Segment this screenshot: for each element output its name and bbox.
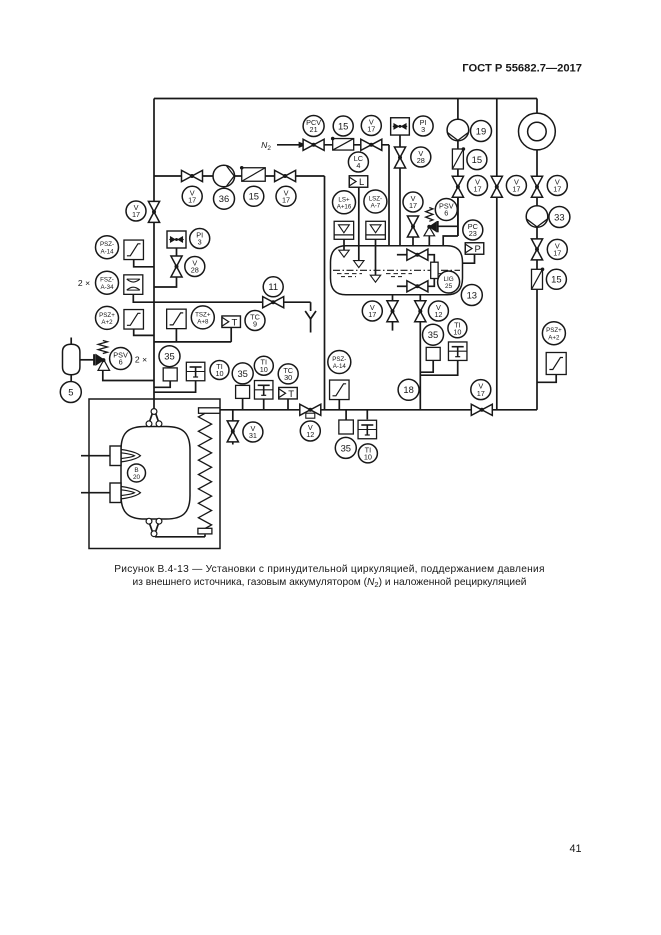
instrument bubble LSZ- A-7 [364, 190, 387, 213]
LS probe [343, 239, 345, 250]
svg-text:A-7: A-7 [371, 203, 381, 210]
selector box T TC9 [222, 316, 241, 328]
instrument bubble 15 feed [244, 186, 264, 206]
N2 line drop to drum [388, 145, 390, 247]
transducer box PSZ+A+2 right [546, 353, 566, 375]
svg-text:L: L [359, 177, 364, 188]
right recirculation pipe x537 [536, 99, 538, 114]
valve V17 bottom header right [471, 404, 492, 415]
svg-text:6: 6 [119, 358, 123, 367]
instrument bubble 35 blowoff [423, 324, 444, 345]
svg-text:ГОСТ Р 55682.7—2017: ГОСТ Р 55682.7—2017 [462, 63, 582, 75]
svg-text:30: 30 [284, 373, 292, 382]
instrument bubble PI 3 left [190, 229, 210, 249]
valve V28 vent branch [394, 147, 405, 168]
instrument bubble TI 10 left [210, 361, 229, 380]
PSZ-A-14 right stub [338, 399, 340, 409]
svg-text:15: 15 [249, 191, 259, 202]
PSV outlet to vent line [438, 225, 458, 227]
instrument bubble PSV 6 drum [435, 199, 457, 221]
instrument bubble PCV 21 [303, 116, 324, 137]
instrument bubble PSV 6 left [110, 348, 132, 370]
instrument bubble V 17 vent [468, 176, 488, 196]
instrument bubble LC 4 [348, 152, 368, 172]
svg-text:A+2: A+2 [548, 334, 560, 341]
junction box left [163, 368, 177, 381]
selector box T TC30 [279, 387, 298, 399]
instrument bubble FSZ- A-34 [96, 271, 119, 294]
PSV6 left discharge [103, 370, 154, 380]
svg-text:PSZ+: PSZ+ [546, 327, 562, 334]
svg-text:10: 10 [260, 365, 268, 374]
second riser pipe x497 [496, 99, 498, 177]
PC23 sensing line [461, 254, 475, 263]
instrument bubble 19 [471, 121, 492, 142]
svg-text:17: 17 [188, 196, 196, 205]
thermowell box blowoff [448, 342, 467, 361]
valve V17 drum drain [387, 301, 398, 322]
svg-text:17: 17 [132, 210, 140, 219]
instrument bubble 11 [263, 277, 283, 297]
flow element PI3 branch [167, 231, 186, 248]
valve V17 main line [148, 201, 159, 222]
selector box L [349, 176, 368, 188]
transducer box PSZ-A-14 [124, 240, 144, 259]
svg-text:15: 15 [472, 154, 482, 165]
thermowell box left [186, 362, 205, 381]
svg-text:10: 10 [453, 328, 461, 337]
instrument bubble V 17 recirc lower [547, 239, 567, 259]
pump 33 [526, 206, 548, 228]
svg-text:17: 17 [409, 201, 417, 210]
svg-text:3: 3 [198, 238, 202, 247]
junction box mid [236, 385, 250, 398]
svg-text:21: 21 [310, 125, 318, 134]
svg-text:A-14: A-14 [333, 363, 347, 370]
svg-text:LS+: LS+ [338, 196, 350, 203]
svg-text:12: 12 [434, 310, 442, 319]
burner upper [110, 446, 121, 466]
instrument bubble PSZ+ A+2 right [542, 322, 565, 345]
selector box P [465, 243, 484, 255]
svg-text:17: 17 [282, 196, 290, 205]
svg-text:35: 35 [341, 442, 351, 453]
steam drum vessel [331, 246, 463, 295]
svg-text:Рисунок В.4-13 — Установки с п: Рисунок В.4-13 — Установки с принудитель… [114, 564, 545, 575]
svg-text:3: 3 [421, 125, 425, 134]
valve V17 on N2 line [361, 139, 382, 150]
svg-text:15: 15 [338, 120, 348, 131]
svg-text:17: 17 [473, 185, 481, 194]
svg-text:LSZ-: LSZ- [369, 196, 382, 203]
valve 11 blowdown [263, 297, 284, 308]
valve V12 bottom header [300, 404, 321, 415]
valve V28 left [171, 256, 182, 277]
valve V31 [227, 421, 238, 442]
boiler vessel [121, 427, 190, 520]
pump 19 ejector [447, 119, 469, 141]
svg-text:17: 17 [477, 389, 485, 398]
top header pipe [154, 98, 537, 100]
valve V17 feed line [182, 170, 203, 181]
control valve PCV 21 [303, 139, 324, 150]
feed line down to bottom header [324, 176, 326, 410]
N2 accumulator vessel 5 [63, 344, 80, 374]
instrument bubble PSZ- A-14 [96, 236, 119, 259]
svg-text:6: 6 [444, 209, 448, 218]
instrument bubble V 17 [361, 116, 381, 136]
main feed vertical pipe left [153, 99, 155, 408]
TSZ/TC9 connection line [154, 341, 231, 343]
flue stack symbol [519, 113, 556, 150]
restrictor 15 recirc [532, 269, 543, 289]
V28 vent branch riser [399, 135, 401, 246]
valve V17 riser [491, 176, 502, 197]
instrument bubble PI 3 [413, 116, 433, 136]
accumulator to PSV link [80, 359, 94, 361]
PSZ-A-14 left connection [134, 259, 154, 266]
svg-text:TSZ+: TSZ+ [195, 311, 211, 318]
svg-text:17: 17 [553, 249, 561, 258]
svg-text:PSZ-: PSZ- [332, 356, 346, 363]
svg-text:17: 17 [512, 185, 520, 194]
transducer box PSZ+A+2 [124, 310, 144, 330]
instrument bubble V 17 drum [403, 192, 423, 212]
svg-text:17: 17 [553, 185, 561, 194]
burner fuel lines [81, 455, 110, 457]
thermowell box below header [358, 420, 377, 439]
instrument bubble V 17 main [126, 201, 146, 221]
instrument bubble TSZ+ A+8 [191, 306, 214, 329]
PSZ+A+2 right connection [537, 375, 556, 383]
svg-text:19: 19 [476, 125, 486, 136]
svg-text:2 ×: 2 × [78, 278, 90, 288]
svg-text:A-14: A-14 [100, 248, 114, 255]
instrument bubble TC 30 [278, 364, 298, 384]
svg-text:25: 25 [445, 283, 453, 290]
instrument bubble 15 recirc [546, 269, 566, 289]
level gauge piping [397, 254, 407, 256]
instrument bubble V 17 feed right [276, 186, 296, 206]
instrument bubble V 12 bottom [300, 421, 320, 441]
instrument bubble TI 10 mid [254, 356, 273, 375]
gauge isolation valve top [407, 249, 428, 260]
svg-text:FSZ-: FSZ- [100, 277, 114, 284]
svg-text:PSZ-: PSZ- [100, 241, 114, 248]
svg-text:31: 31 [249, 431, 257, 440]
thermowell box mid [254, 381, 273, 400]
instrument bubble 35 left [159, 346, 180, 367]
svg-text:LIG: LIG [443, 276, 453, 283]
boiler bottom recirc line [155, 536, 205, 538]
instrument bubble V 17 header [471, 380, 491, 400]
svg-text:36: 36 [219, 193, 229, 204]
svg-text:10: 10 [364, 453, 372, 462]
instrument bubble TI 10 below [358, 444, 377, 463]
svg-text:из внешнего источника, газовым: из внешнего источника, газовым аккумулят… [133, 577, 527, 589]
LC probe [358, 187, 360, 261]
level gauge glass [431, 262, 438, 278]
svg-text:18: 18 [403, 384, 413, 395]
PI3 flow branch left [154, 248, 177, 287]
svg-text:28: 28 [417, 156, 425, 165]
relief valve PSV drum [426, 208, 433, 222]
valve V17 recirc top [531, 176, 542, 197]
svg-text:33: 33 [554, 211, 564, 222]
drum water hatching [337, 273, 362, 275]
drum water level line [333, 269, 460, 271]
instrument bubble 15 vent [467, 150, 487, 170]
instrument bubble PC 23 [463, 220, 483, 240]
instrument bubble V 28 [411, 147, 431, 167]
instrument bubble 36 [214, 188, 235, 209]
instrument bubble V 12 blowoff [428, 301, 448, 321]
valve V17 drum vent stub [407, 216, 418, 237]
instrument bubble V 31 [243, 422, 263, 442]
svg-text:T: T [288, 389, 294, 400]
valve V17 recirc lower [531, 239, 542, 260]
heating coil zigzag [198, 413, 211, 528]
wire vent line overlay [457, 197, 459, 236]
drum blowoff V12 line [419, 295, 421, 301]
bottom header pipe [220, 409, 537, 411]
instrument bubble PSZ+ A+2 [96, 306, 119, 329]
svg-text:4: 4 [356, 161, 360, 170]
svg-text:5: 5 [68, 386, 73, 397]
transducer box TSZ [167, 309, 187, 329]
svg-text:11: 11 [268, 281, 278, 292]
svg-text:35: 35 [237, 368, 247, 379]
svg-text:17: 17 [368, 310, 376, 319]
svg-text:B: B [134, 467, 138, 474]
V12 line instrument connections [420, 360, 433, 372]
instrument bubble 33 [549, 207, 570, 228]
svg-text:A-34: A-34 [100, 284, 114, 291]
blowdown drop and funnel [310, 302, 312, 311]
instrument bubble LIG 25 [438, 271, 460, 293]
instrument bubble 15 [333, 116, 353, 136]
V31 branch [232, 410, 234, 421]
instrument bubble 18 [398, 379, 419, 400]
svg-text:T: T [231, 317, 237, 328]
restrictor 15 feed [242, 168, 266, 182]
junction box below header [339, 420, 354, 434]
svg-text:P: P [475, 244, 481, 255]
relief valve PSV 6 left [98, 341, 107, 354]
pump 36 [213, 165, 235, 187]
svg-text:A+8: A+8 [197, 319, 209, 326]
instrument bubble V 28 left [185, 257, 205, 277]
V17 stub above drum [412, 237, 414, 247]
svg-text:15: 15 [551, 274, 561, 285]
valve V17 feed right [275, 170, 296, 181]
LSZ probe [375, 239, 377, 275]
svg-text:A+2: A+2 [101, 319, 113, 326]
svg-text:2 ×: 2 × [135, 355, 147, 365]
svg-text:17: 17 [367, 125, 375, 134]
svg-text:A+16: A+16 [337, 204, 352, 211]
junction box blowoff [426, 347, 440, 360]
gauge isolation valve bottom [407, 281, 428, 292]
left sensor cluster connections [154, 380, 170, 387]
restrictor 15 vent [452, 149, 463, 169]
instrument bubble V 17 drain [362, 301, 382, 321]
transducer box PSZ-A-14 right [330, 380, 350, 400]
svg-text:35: 35 [428, 329, 438, 340]
level switch box LS [334, 221, 354, 239]
FSZ to blowdown line [133, 294, 310, 302]
instrument bubble V 17 riser [506, 176, 526, 196]
svg-text:23: 23 [469, 229, 477, 238]
burner lower [110, 483, 121, 503]
instrument bubble 13 [461, 285, 482, 306]
instrument bubble B 20 [128, 464, 146, 482]
instrument bubble PSZ- A-14 right [328, 351, 351, 374]
vent condenser line right [457, 99, 459, 120]
flow element on vent branch [391, 118, 410, 135]
PSZ+A+2 left connection [134, 329, 154, 336]
instrument bubble 5 [60, 382, 81, 403]
vessel top nozzle [153, 408, 155, 410]
drum drain V17 stub [392, 295, 394, 301]
svg-text:28: 28 [191, 266, 199, 275]
bottom cluster stubs below header [345, 410, 347, 420]
boiler enclosure [89, 399, 220, 549]
level switch box LSZ [366, 221, 386, 239]
instrument bubble LS+ A+16 [333, 191, 356, 214]
svg-text:13: 13 [467, 289, 477, 300]
bottom cluster stubs above header [242, 398, 244, 409]
svg-text:10: 10 [215, 369, 223, 378]
svg-text:41: 41 [569, 843, 581, 855]
svg-text:9: 9 [253, 320, 257, 329]
svg-text:20: 20 [133, 474, 141, 481]
instrument bubble 35 below [335, 437, 356, 458]
heating coil bottom bar [198, 528, 212, 534]
valve V17 vent [452, 176, 463, 197]
feed pump line horizontal [154, 175, 325, 177]
instrument bubble 35 mid [232, 363, 253, 384]
svg-text:35: 35 [164, 351, 174, 362]
flow sensor box FSZ [124, 275, 143, 295]
restrictor 15 on N2 line [333, 139, 354, 151]
instrument bubble V 17 recirc [547, 176, 567, 196]
svg-text:PSZ+: PSZ+ [99, 312, 115, 319]
instrument bubble TC 9 [245, 311, 265, 331]
PSV drum inlet stem [428, 236, 430, 247]
heating coil top header bar [199, 408, 220, 414]
vessel bottom nozzle [146, 518, 152, 524]
valve V12 drum blowoff [415, 301, 426, 322]
svg-text:12: 12 [306, 430, 314, 439]
instrument bubble V 17 feed [182, 186, 202, 206]
instrument bubble TI 10 blowoff [448, 319, 467, 338]
